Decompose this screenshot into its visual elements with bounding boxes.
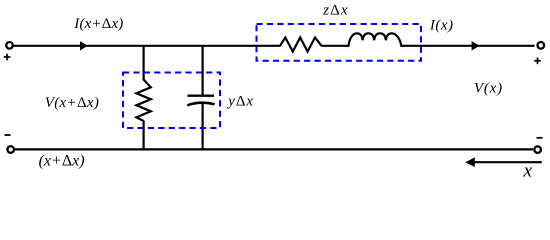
dashed box shunt admittance y — [123, 73, 220, 129]
wire top-left segment — [14, 45, 144, 47]
wire shunt branch 1 lower — [143, 121, 145, 150]
wire shunt branch 1 upper — [143, 46, 145, 81]
dashed box series impedance z — [257, 24, 422, 61]
current arrow I(x+dx) on top-left wire — [80, 41, 88, 50]
terminal bottom-left — [7, 146, 14, 153]
current arrow I(x) on top-right wire — [472, 41, 480, 50]
svg-text:V(x+Δx): V(x+Δx) — [45, 95, 99, 111]
x-axis arrow (pointing left) — [465, 157, 542, 167]
terminal bottom-right — [534, 146, 541, 153]
capacitor C top plate — [188, 94, 215, 96]
wire shunt branch 2 lower — [202, 104, 204, 150]
terminal top-right — [538, 42, 545, 49]
svg-text:V(x): V(x) — [474, 80, 503, 96]
minus sign bottom-left — [5, 134, 11, 136]
svg-text:I(x+Δx): I(x+Δx) — [73, 16, 123, 32]
plus sign top-right — [534, 58, 541, 65]
wire top middle segment node A to node B — [144, 45, 203, 47]
resistor shunt (vertical zigzag) — [136, 80, 150, 122]
inductor L series (coil) — [348, 33, 401, 47]
wire node B to series resistor — [203, 45, 281, 47]
wire shunt branch 2 upper — [202, 46, 204, 95]
svg-text:I(x): I(x) — [429, 17, 454, 33]
svg-text:(x+Δx): (x+Δx) — [39, 153, 85, 170]
wire bottom return — [15, 148, 533, 150]
minus sign bottom-right — [537, 137, 543, 139]
svg-text:x: x — [523, 160, 533, 180]
terminal top-left — [6, 42, 13, 49]
resistor R series (zigzag) — [280, 38, 322, 52]
plus sign top-left — [4, 54, 11, 61]
capacitor C bottom plate (curved) — [187, 103, 214, 106]
svg-text:yΔx: yΔx — [226, 93, 254, 109]
wire between series resistor and inductor — [321, 45, 349, 47]
svg-text:zΔx: zΔx — [322, 3, 348, 19]
wire inductor to top-right terminal — [401, 45, 535, 47]
